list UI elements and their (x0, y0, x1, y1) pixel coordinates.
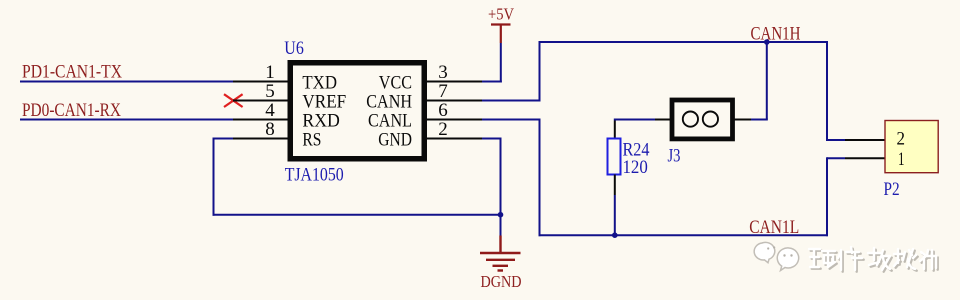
svg-text:DGND: DGND (481, 272, 522, 291)
svg-text:VCC: VCC (379, 73, 412, 94)
svg-text:4: 4 (265, 100, 275, 121)
U6 pin 5 VREF stub (233, 100, 290, 102)
ground DGND symbol (480, 236, 521, 271)
wire R24 top to J3 left pin (614, 119, 655, 121)
wire CAN1H top run (539, 41, 829, 43)
wire GND node to ground symbol (500, 215, 502, 236)
jumper J3 right pin (734, 119, 751, 121)
svg-text:2: 2 (438, 119, 448, 140)
IC U6 body (290, 63, 424, 159)
wire CANH riser up (539, 41, 541, 102)
power +5V symbol (491, 25, 511, 44)
svg-text:1: 1 (265, 62, 275, 83)
junction CAN1L / R24 (612, 232, 618, 238)
wire pin 3 to +5V riser (482, 81, 502, 83)
svg-text:RS: RS (302, 130, 321, 151)
svg-text:GND: GND (378, 130, 412, 151)
watermark logo eyes (767, 246, 793, 256)
jumper J3 left pin (655, 119, 672, 121)
junction GND node (498, 212, 504, 218)
wire pin 8 RS left (214, 138, 234, 140)
svg-text:120: 120 (623, 157, 648, 178)
connector P2 pin 2 stub (845, 139, 886, 141)
svg-text:PD0-CAN1-RX: PD0-CAN1-RX (22, 100, 121, 121)
svg-text:RXD: RXD (302, 111, 340, 132)
svg-text:U6: U6 (284, 38, 304, 59)
U6 pin 4 RXD stub (233, 119, 290, 121)
wire +5V down to pin 3 (500, 43, 502, 83)
svg-text:CANH: CANH (366, 92, 412, 113)
svg-text:PD1-CAN1-TX: PD1-CAN1-TX (22, 62, 122, 83)
svg-text:8: 8 (265, 119, 275, 140)
U6 pin 1 TXD stub (233, 81, 290, 83)
svg-text:1: 1 (898, 149, 905, 170)
J3 pad 2 (703, 112, 718, 127)
U6 pin 7 CANH stub (424, 100, 482, 102)
U6 pin 8 RS stub (233, 138, 290, 140)
svg-text:CAN1H: CAN1H (751, 24, 801, 45)
wire CANL drop down (539, 120, 541, 237)
watermark text (embossed) (809, 247, 938, 272)
svg-text:P2: P2 (884, 179, 900, 200)
U6 pin 3 VCC stub (424, 81, 482, 83)
resistor R24 bottom pin (614, 175, 616, 196)
wire RS bottom run to GND node (213, 214, 501, 216)
svg-text:TJA1050: TJA1050 (285, 165, 344, 186)
wire pin 7 CANH right (482, 100, 541, 102)
svg-text:3: 3 (438, 62, 448, 83)
resistor R24 body (608, 139, 621, 175)
svg-text:CAN1L: CAN1L (749, 217, 799, 238)
svg-text:6: 6 (438, 100, 448, 121)
svg-text:2: 2 (897, 128, 906, 149)
svg-text:7: 7 (438, 81, 448, 102)
wire R24 to CAN1L (614, 195, 616, 235)
wire pin 6 CANL right (482, 119, 541, 121)
no-connect X on pin 5 (224, 94, 243, 107)
wire into P2 pin 2 (827, 139, 845, 141)
U6 pin 6 CANL stub (424, 119, 482, 121)
svg-text:TXD: TXD (302, 73, 337, 94)
wire GND drop down (500, 139, 502, 215)
wire CAN1L bottom run (539, 234, 829, 236)
wire J3 right pin to riser (751, 119, 768, 121)
U6 pin 2 GND stub (424, 138, 482, 140)
wire CAN1L up to P2 pin 1 (826, 157, 828, 236)
watermark logo (754, 242, 798, 270)
svg-text:5: 5 (265, 81, 275, 102)
svg-text:VREF: VREF (302, 92, 346, 113)
wire net PD1-CAN1-TX (20, 81, 233, 83)
J3 pad 1 (683, 112, 698, 127)
jumper J3 body (672, 100, 733, 139)
connector P2 body (885, 121, 938, 173)
wire CAN1H drop to P2 pin 2 (826, 42, 828, 141)
connector P2 pin 1 stub (845, 157, 886, 159)
svg-text:CANL: CANL (368, 111, 412, 132)
wire into P2 pin 1 (827, 157, 845, 159)
resistor R24 top pin (614, 121, 616, 140)
wire down to J3 right pin (766, 42, 768, 120)
svg-text:+5V: +5V (488, 5, 515, 24)
junction CAN1H / J3 (764, 39, 770, 45)
svg-text:J3: J3 (668, 146, 681, 167)
wire RS drop down (213, 138, 215, 216)
wire pin 2 GND right (482, 138, 502, 140)
wire net PD0-CAN1-RX (20, 119, 233, 121)
